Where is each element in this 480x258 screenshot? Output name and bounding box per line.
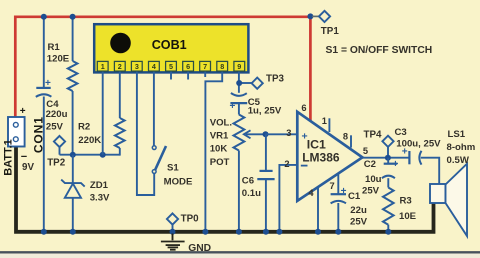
wire C4 bottom — [43, 97, 45, 232]
capacitor C3 — [408, 151, 410, 164]
wire ground bus (black) — [16, 146, 434, 232]
connector CON1 — [8, 117, 25, 147]
svg-text:25V: 25V — [350, 217, 368, 228]
svg-text:+: + — [302, 130, 308, 142]
wire pin3 to S1 — [137, 72, 154, 196]
junction pin8 gnd — [202, 229, 208, 235]
svg-text:25V: 25V — [46, 121, 64, 132]
junction pin4 gnd — [315, 229, 321, 235]
svg-text:0.1u: 0.1u — [242, 188, 261, 199]
junction C4 rail — [41, 14, 47, 20]
wire ic pin7 — [337, 174, 339, 195]
svg-text:8-ohm: 8-ohm — [447, 142, 476, 153]
svg-text:LS1: LS1 — [448, 129, 466, 140]
svg-text:5: 5 — [363, 146, 368, 156]
junction pin9 — [236, 80, 242, 86]
potentiometer VR1 — [234, 115, 245, 151]
svg-text:+: + — [341, 186, 347, 197]
svg-text:C2: C2 — [364, 159, 376, 170]
junction node-pin1 — [100, 152, 106, 158]
switch S1 — [152, 146, 156, 150]
wire wiper to pin3 — [266, 133, 298, 135]
svg-text:POT: POT — [210, 157, 230, 168]
svg-text:2: 2 — [284, 159, 289, 169]
wire R3 bottom — [387, 225, 389, 232]
svg-text:TP4: TP4 — [364, 130, 383, 141]
test point TP0 — [167, 213, 178, 224]
svg-text:3.3V: 3.3V — [90, 192, 110, 203]
resistor R2 — [115, 118, 125, 148]
svg-text:ZD1: ZD1 — [90, 180, 109, 191]
svg-text:VR1: VR1 — [210, 131, 229, 142]
svg-text:9V: 9V — [22, 162, 34, 173]
svg-text:220K: 220K — [78, 135, 101, 146]
IC COB1 body — [94, 24, 248, 72]
wire 3V3 node — [60, 154, 120, 156]
svg-text:R1: R1 — [48, 42, 61, 53]
svg-text:100u, 25V: 100u, 25V — [396, 139, 441, 150]
svg-text:7: 7 — [330, 181, 335, 191]
junction R3 gnd — [385, 229, 391, 235]
wire C5 to VR1 — [238, 103, 240, 114]
svg-text:6: 6 — [301, 103, 306, 113]
capacitor C6 — [260, 170, 273, 172]
svg-text:220u: 220u — [46, 109, 68, 120]
svg-text:+: + — [20, 106, 26, 117]
wire ic pin1 stub — [328, 118, 330, 132]
test point TP3 — [240, 82, 252, 84]
wire pin2 ic — [279, 165, 297, 232]
capacitor C2 — [384, 163, 398, 165]
svg-text:22u: 22u — [350, 205, 367, 216]
junction VR1 gnd — [236, 229, 242, 235]
svg-text:4: 4 — [308, 188, 314, 198]
wire C2 to R3 — [387, 178, 389, 187]
test point TP2 — [54, 136, 65, 147]
svg-text:S1: S1 — [167, 163, 179, 174]
wire C4 top — [43, 17, 45, 87]
svg-text:8: 8 — [343, 131, 348, 141]
svg-text:+: + — [393, 159, 399, 170]
capacitor C1 — [331, 193, 346, 195]
test point TP1 — [307, 13, 313, 19]
junction ZD1 gnd — [70, 229, 76, 235]
junction C6 gnd — [263, 229, 269, 235]
svg-text:4: 4 — [152, 62, 156, 71]
wire VR1 bottom — [238, 151, 240, 232]
svg-text:1: 1 — [101, 62, 105, 71]
svg-text:S1 = ON/OFF SWITCH: S1 = ON/OFF SWITCH — [326, 45, 433, 56]
svg-text:R2: R2 — [78, 122, 90, 133]
junction C1 gnd — [335, 229, 341, 235]
wire ic pin8 stub — [350, 135, 352, 147]
svg-text:25V: 25V — [362, 186, 380, 197]
svg-text:TP0: TP0 — [181, 214, 200, 225]
svg-text:TP1: TP1 — [321, 26, 340, 37]
wire R1 top — [72, 17, 74, 61]
ic minus sign — [301, 165, 308, 167]
svg-text:5: 5 — [169, 62, 173, 71]
junction pin2 gnd — [276, 229, 282, 235]
wire pin7 stub — [204, 72, 206, 78]
svg-text:120E: 120E — [47, 54, 70, 65]
svg-text:8: 8 — [220, 62, 224, 71]
svg-text:3: 3 — [286, 128, 291, 138]
svg-text:+: + — [230, 101, 236, 112]
svg-text:10K: 10K — [210, 144, 228, 155]
wire ZD1 bottom — [72, 198, 74, 232]
wire ZD1 top — [72, 155, 74, 183]
resistor R1 — [68, 61, 78, 91]
svg-text:2: 2 — [118, 62, 122, 71]
svg-text:10u: 10u — [365, 174, 382, 185]
svg-text:0.5W: 0.5W — [447, 155, 470, 166]
wire +9V red rail — [15, 17, 310, 121]
svg-text:C6: C6 — [242, 176, 254, 187]
wire R2 bottom — [119, 148, 121, 156]
wire output — [362, 157, 409, 159]
bottom border line — [0, 254, 480, 258]
resistor R3 — [383, 188, 394, 225]
wire ic pin4 gnd — [317, 187, 319, 232]
svg-text:TP3: TP3 — [266, 73, 285, 84]
wire pin1 — [102, 72, 104, 155]
svg-text:9: 9 — [237, 62, 241, 71]
junction C4 gnd — [41, 229, 47, 235]
junction wiper — [263, 131, 269, 137]
svg-text:C1: C1 — [348, 191, 361, 202]
svg-text:7: 7 — [203, 62, 207, 71]
svg-text:IC1: IC1 — [307, 138, 326, 152]
svg-text:LM386: LM386 — [302, 151, 340, 165]
svg-text:TP2: TP2 — [47, 158, 66, 169]
svg-text:10E: 10E — [399, 211, 417, 222]
capacitor C4 — [36, 87, 50, 89]
test point TP4 — [382, 136, 393, 147]
VR1 wiper arrow — [246, 133, 266, 135]
svg-text:1: 1 — [322, 116, 327, 126]
junction output — [385, 155, 391, 161]
svg-text:3: 3 — [135, 62, 139, 71]
wire C6 top — [265, 134, 267, 171]
junction node-R1 — [70, 152, 76, 158]
COB1 pin boxes 1-9 — [97, 61, 108, 71]
speaker LS1 — [430, 184, 446, 203]
svg-text:MODE: MODE — [164, 177, 193, 188]
svg-text:1u, 25V: 1u, 25V — [248, 106, 282, 117]
svg-text:C3: C3 — [395, 127, 407, 138]
wire pin4 to S1 — [153, 72, 155, 146]
svg-text:VOL.: VOL. — [210, 118, 232, 129]
wire R1 bottom — [72, 91, 74, 155]
svg-text:COB1: COB1 — [152, 38, 187, 52]
junction R1 rail — [70, 14, 76, 20]
svg-text:R3: R3 — [400, 196, 412, 207]
wire pin5 stub — [170, 72, 172, 80]
op-amp IC1 triangle — [297, 112, 362, 201]
wire pin9 — [238, 72, 240, 93]
svg-text:+: + — [45, 78, 51, 89]
wire C1 bottom — [337, 203, 339, 232]
wire pin8 to gnd — [205, 72, 222, 232]
wire C2 top — [387, 158, 389, 164]
svg-text:BATT.1: BATT.1 — [2, 139, 14, 175]
wire C3 to LS1 — [421, 158, 439, 184]
wire C6 bottom — [265, 179, 267, 232]
zener diode ZD1 — [61, 180, 84, 187]
ground GND symbol — [172, 234, 174, 241]
COB1 chip blob — [110, 33, 131, 54]
wire pin2 to R2 — [119, 72, 121, 119]
svg-text:6: 6 — [186, 62, 190, 71]
capacitor C5 — [231, 93, 247, 96]
wire pin6 stub — [187, 72, 189, 80]
junction TP0 gnd — [170, 229, 176, 235]
